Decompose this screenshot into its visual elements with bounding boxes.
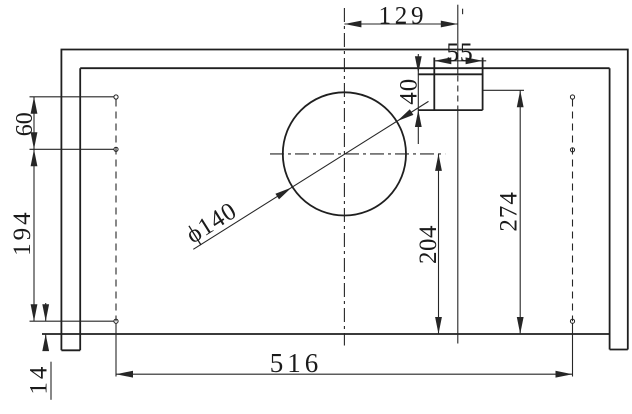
inner panel bottom edge line: [42, 333, 610, 335]
box bottom edge: [418, 109, 483, 111]
hole extension line row1: [30, 96, 115, 98]
mounting hole bottom-right: [570, 319, 574, 323]
svg-text:ϕ140: ϕ140: [181, 197, 242, 249]
inner panel left edge: [79, 68, 81, 350]
dim 60 bottom arrow: [31, 132, 38, 149]
dim 14 top arrow: [42, 304, 49, 321]
dim 204 line: [438, 154, 440, 334]
inner panel top edge: [80, 67, 609, 69]
dim 55 line: [434, 60, 486, 62]
dim 204 bottom arrow: [435, 317, 442, 334]
dim 274 bottom arrow: [517, 317, 524, 334]
dim 516 left extension: [115, 324, 117, 377]
dim 14 line below: [45, 334, 47, 350]
box right edge: [482, 58, 484, 111]
dim 14 bottom arrow: [42, 334, 49, 351]
dim 14 line above: [45, 303, 47, 321]
svg-text:516: 516: [270, 348, 323, 378]
svg-text:204: 204: [415, 225, 442, 264]
outer panel right foot closing: [610, 349, 628, 351]
dim 204 top arrow: [435, 154, 442, 171]
extension tick near top: [462, 9, 464, 15]
svg-text:194: 194: [9, 209, 36, 256]
svg-text:40: 40: [395, 78, 422, 105]
dim 55 right arrow: [466, 57, 483, 64]
right hole column dashed line: [572, 100, 574, 322]
dim 516 left arrow: [116, 371, 133, 378]
leader arrow upper-right on circle: [397, 109, 413, 121]
dim 60-194 line: [33, 97, 35, 321]
circle horizontal centerline: [270, 153, 445, 155]
dim 194 bottom arrow: [31, 304, 38, 321]
inner panel right edge: [609, 68, 611, 349]
outer panel left foot closing: [61, 349, 80, 351]
mounting hole top-left: [114, 95, 118, 99]
circle vertical centerline: [343, 8, 345, 346]
dim 274 top arrow: [517, 90, 524, 107]
box left edge: [433, 58, 435, 111]
svg-text:55: 55: [446, 38, 473, 67]
leader arrow lower-left on circle: [275, 188, 291, 200]
box top edge: [418, 73, 483, 75]
hole circle D140: [283, 92, 406, 215]
svg-text:129: 129: [378, 3, 427, 30]
dim 129 left arrow: [344, 21, 361, 28]
dim 60 top arrow: [31, 97, 38, 114]
hole extension line row2: [30, 148, 115, 150]
mounting hole mid-left: [114, 147, 118, 151]
outer panel outline: [61, 50, 627, 351]
dim 40 line: [417, 54, 419, 144]
hole extension line row3: [30, 320, 115, 322]
dim 40 top arrow: [415, 56, 422, 73]
dim 274 leader from box: [483, 89, 524, 91]
box vertical centerline: [457, 5, 459, 75]
svg-text:14: 14: [26, 364, 53, 395]
mounting hole mid-right: [570, 148, 574, 152]
dim 516 line: [116, 373, 573, 375]
leader line D140: [193, 101, 428, 249]
mounting hole bottom-left: [114, 319, 118, 323]
dim 516 right extension: [572, 324, 574, 377]
left hole column dashed line: [115, 100, 117, 322]
dim 516 right arrow: [556, 371, 573, 378]
dim 55 left arrow: [434, 57, 451, 64]
dim 274 line: [519, 90, 521, 334]
svg-text:274: 274: [496, 191, 523, 232]
svg-text:60: 60: [12, 112, 38, 136]
dim 14 lower leader line: [50, 362, 52, 400]
dim 129 line: [344, 23, 457, 25]
dim 40 bottom arrow: [415, 110, 422, 127]
dim 194 top arrow: [31, 149, 38, 166]
mounting hole top-right: [570, 95, 574, 99]
dim 129 right arrow: [441, 21, 458, 28]
